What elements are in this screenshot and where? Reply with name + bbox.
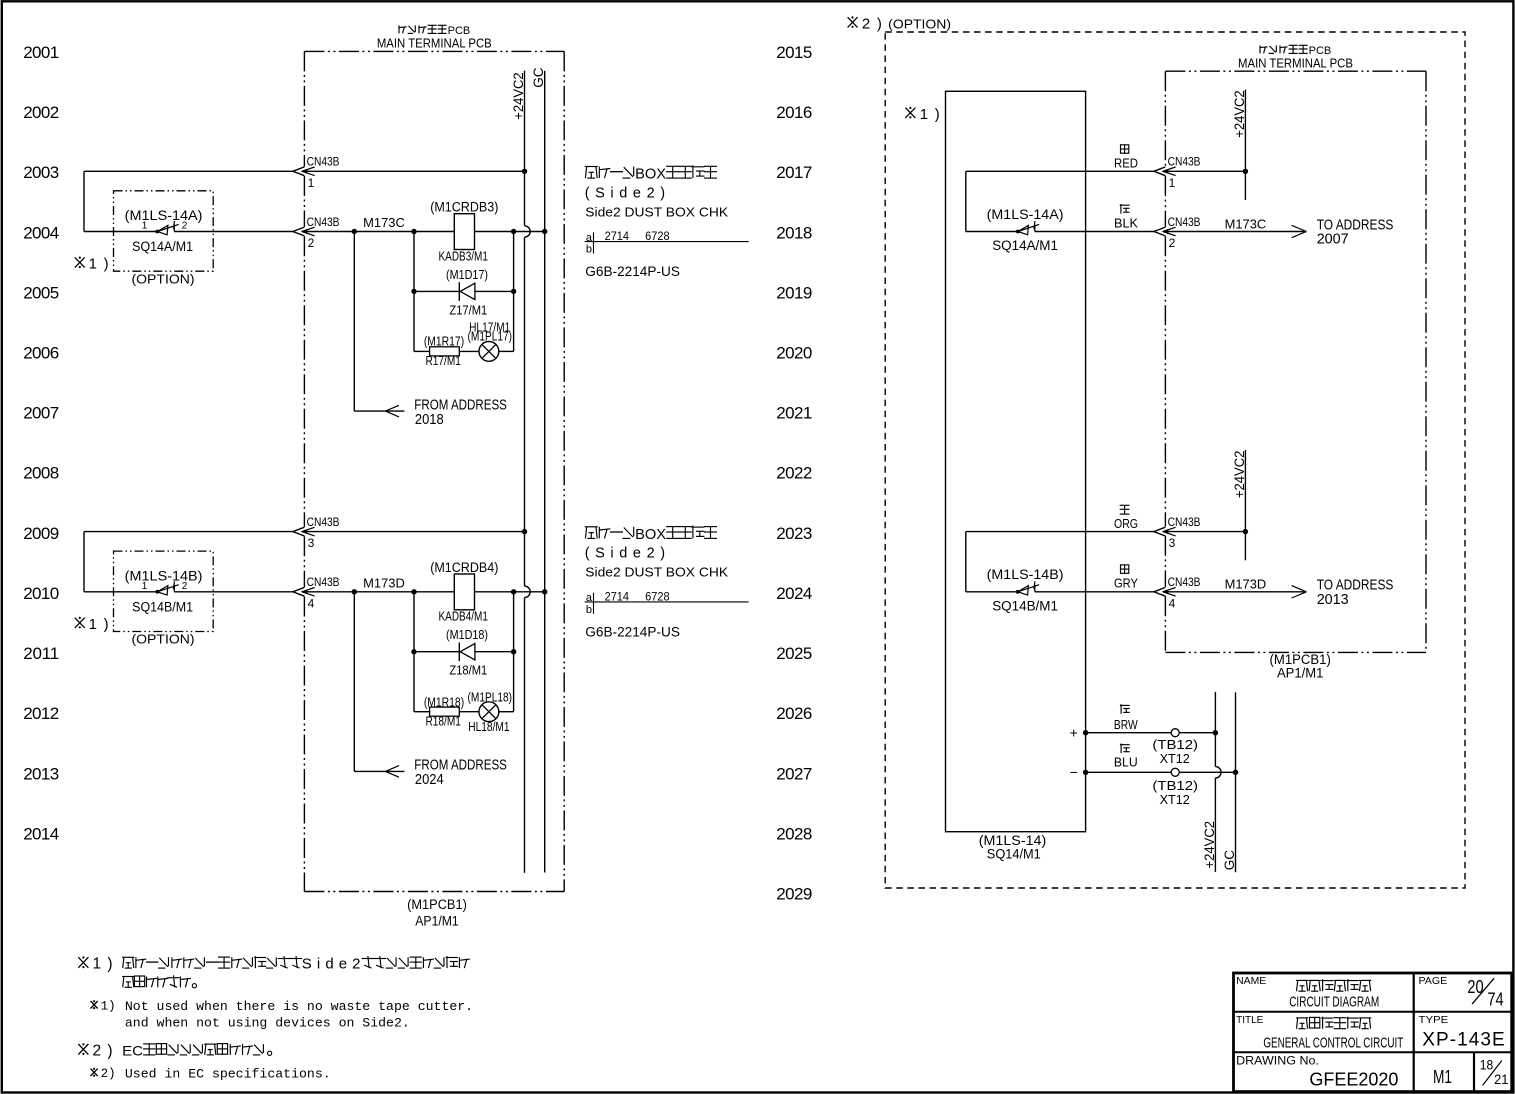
svg-text:(M1LS-14A): (M1LS-14A): [987, 207, 1064, 222]
connector CN43B pin 2: [1154, 227, 1176, 236]
svg-text:CN43B: CN43B: [1168, 575, 1201, 589]
option enclosure dash-dot box: [114, 191, 214, 271]
title 総合制御回路: [1296, 1017, 1308, 1019]
net +24VC2 stub: [1244, 450, 1246, 560]
svg-text:M173C: M173C: [363, 216, 405, 230]
svg-text:G6B-2214P-US: G6B-2214P-US: [585, 625, 680, 640]
note ※1) small: [91, 999, 116, 1013]
svg-text:2): 2): [101, 1067, 116, 1081]
svg-text:CIRCUIT DIAGRAM: CIRCUIT DIAGRAM: [1289, 993, 1379, 1010]
svg-text:DRAWING No.: DRAWING No.: [1236, 1055, 1319, 1067]
svg-text:2011: 2011: [23, 644, 59, 663]
svg-text:1: 1: [308, 176, 315, 190]
svg-text:M173D: M173D: [363, 577, 405, 591]
enclosure OPTION dashed box: [885, 32, 1465, 888]
svg-text:(M1R17): (M1R17): [424, 335, 464, 349]
switch unit enclosure box (M1LS-14): [946, 91, 1086, 831]
note JP line2 使用しません。: [122, 976, 134, 978]
svg-text:R17/M1: R17/M1: [426, 354, 461, 368]
svg-text:G6B-2214P-US: G6B-2214P-US: [585, 264, 680, 279]
svg-text:2024: 2024: [776, 584, 812, 603]
terminal XT12 (TB12) lower: [1171, 768, 1179, 776]
wire row to CN43B: [966, 170, 1154, 172]
junction on +24VC2: [1243, 529, 1248, 534]
note EC仕様のとき使用します。: [122, 1043, 272, 1059]
svg-text:SQ14B/M1: SQ14B/M1: [132, 599, 193, 614]
note JP line1: [122, 956, 470, 973]
svg-text:2): 2): [93, 1043, 113, 1060]
label 赤: [1121, 145, 1129, 153]
junction on GC: [542, 229, 547, 234]
resistor R18/M1 (M1R18): [430, 707, 460, 716]
svg-text:Side2: Side2: [302, 956, 361, 973]
note 残テープBOX有無確認: [585, 526, 717, 543]
svg-text:2003: 2003: [23, 163, 59, 182]
svg-text:PCB: PCB: [448, 25, 471, 37]
terminal XT12 (TB12) upper: [1171, 729, 1179, 737]
junction on +24VC2: [1213, 730, 1218, 735]
svg-text:1): 1): [89, 616, 109, 633]
limit switch SQ14A/M1 (M1LS-14A): [155, 221, 178, 235]
junction at box edge BLU: [1083, 770, 1088, 775]
svg-text:2019: 2019: [776, 283, 812, 302]
title block frame: [1234, 973, 1512, 1092]
wire loop to switch: [966, 591, 1018, 593]
net +24VC2 stub: [1244, 90, 1246, 200]
svg-text:KADB3/M1: KADB3/M1: [439, 249, 488, 263]
svg-text:(M1LS-14A): (M1LS-14A): [125, 208, 203, 223]
svg-text:2010: 2010: [23, 584, 59, 603]
note ※2） bottom: [78, 1043, 112, 1060]
resistor R17/M1 (M1R17): [430, 347, 460, 356]
svg-text:2012: 2012: [23, 704, 59, 723]
svg-text:MAIN TERMINAL PCB: MAIN TERMINAL PCB: [1238, 57, 1353, 71]
svg-text:(M1R18): (M1R18): [424, 696, 464, 710]
svg-text:2024: 2024: [415, 772, 444, 788]
svg-text:2006: 2006: [23, 344, 59, 363]
svg-text:NAME: NAME: [1236, 975, 1266, 987]
junction at box edge BRW: [1083, 730, 1088, 735]
svg-text:M173C: M173C: [1225, 217, 1267, 231]
svg-text:XP-143E: XP-143E: [1422, 1030, 1504, 1051]
svg-text:CN43B: CN43B: [307, 515, 340, 529]
wire loop to switch: [966, 231, 1018, 233]
svg-text:2029: 2029: [776, 885, 812, 904]
branch wire right vertical: [513, 592, 515, 712]
wire lamp row: [414, 350, 430, 352]
junction node parallel branch left: [411, 589, 416, 594]
svg-text:GRY: GRY: [1114, 577, 1139, 591]
svg-text:b: b: [586, 244, 592, 256]
wire diode row: [414, 651, 459, 653]
arrow to address: [1292, 586, 1307, 592]
wire CN43B pin4 to relay coil: [307, 591, 454, 593]
wire loop vertical: [83, 532, 85, 592]
svg-text:PCB: PCB: [1309, 45, 1332, 57]
svg-text:(TB12): (TB12): [1152, 778, 1198, 793]
diode Z17/M1 (M1D17): [459, 282, 475, 301]
svg-text:Side2 DUST BOX CHK: Side2 DUST BOX CHK: [585, 565, 728, 580]
contact table a/b 2714 6728: [585, 592, 749, 616]
svg-text:1): 1): [93, 956, 113, 973]
svg-text:Z18/M1: Z18/M1: [449, 663, 487, 678]
diode Z18/M1 (M1D18): [459, 643, 475, 662]
svg-text:BOX: BOX: [635, 166, 666, 183]
svg-text:SQ14A/M1: SQ14A/M1: [992, 238, 1058, 253]
wire relay coil to GC: [475, 591, 545, 593]
svg-text:2008: 2008: [23, 464, 59, 483]
connector CN43B pin 1: [293, 167, 315, 176]
connector CN43B pin 4: [1154, 587, 1176, 596]
svg-text:AP1/M1: AP1/M1: [1277, 666, 1324, 681]
junction node from-address branch: [352, 229, 357, 234]
address labels right column 2015-2029: [776, 43, 812, 904]
svg-text:BRW: BRW: [1114, 718, 1138, 732]
label 黒: [1120, 204, 1122, 214]
connector CN43B pin 3: [1154, 527, 1176, 536]
junction node parallel branch left: [411, 229, 416, 234]
wire BRW: [1086, 732, 1216, 734]
connector CN43B pin 3: [293, 527, 315, 536]
wire row 2009 to CN43B: [84, 531, 293, 533]
relay coil KADB3/M1 (M1CRDB3): [454, 214, 474, 250]
wire CN43B to +24VC2: [1168, 531, 1245, 533]
note ※2) small: [91, 1067, 116, 1081]
svg-text:(Side2): (Side2): [585, 546, 665, 562]
wire loop vertical: [83, 171, 85, 231]
svg-text:(M1D17): (M1D17): [446, 268, 488, 282]
PCB title メイン中継PCB right: [1260, 45, 1331, 57]
svg-text:2020: 2020: [776, 344, 812, 363]
address labels left column 2001-2014: [23, 43, 59, 844]
junction on GC: [542, 589, 547, 594]
svg-text:21: 21: [1494, 1071, 1509, 1087]
note ※1）: [75, 616, 109, 633]
label 橙: [1120, 504, 1130, 506]
wire loop vertical: [965, 171, 967, 231]
svg-text:2002: 2002: [23, 103, 59, 122]
svg-text:BLU: BLU: [1114, 755, 1138, 769]
svg-text:GC: GC: [531, 67, 546, 88]
junction on +24VC2: [522, 529, 527, 534]
svg-text:(M1CRDB4): (M1CRDB4): [430, 560, 498, 575]
svg-text:2005: 2005: [23, 283, 59, 302]
svg-text:2017: 2017: [776, 163, 812, 182]
connector CN43B pin 4: [293, 587, 315, 596]
svg-text:2: 2: [1169, 236, 1176, 250]
svg-text:(M1PL18): (M1PL18): [468, 691, 513, 705]
wire from-address branch: [354, 592, 404, 772]
svg-text:BOX: BOX: [635, 526, 666, 543]
svg-text:(M1PL17): (M1PL17): [468, 330, 513, 344]
svg-text:SQ14B/M1: SQ14B/M1: [992, 598, 1058, 613]
note ※1） bottom: [78, 956, 112, 973]
svg-text:2027: 2027: [776, 764, 812, 783]
svg-text:2028: 2028: [776, 825, 812, 844]
junction node parallel branch right: [511, 229, 516, 234]
svg-text:Side2 DUST BOX CHK: Side2 DUST BOX CHK: [585, 204, 728, 219]
wire M173D to address: [1168, 591, 1306, 593]
svg-text:EC: EC: [122, 1043, 143, 1059]
wire row 2003 to CN43B: [84, 170, 293, 172]
wire switch to CN43B: [174, 591, 293, 593]
wire CN43B pin1 to +24VC2: [307, 170, 525, 172]
svg-text:2026: 2026: [776, 704, 812, 723]
branch wire left vertical: [413, 592, 415, 712]
svg-text:TITLE: TITLE: [1236, 1014, 1263, 1026]
contact table a/b 2714 6728: [585, 231, 749, 255]
svg-text:+24VC2: +24VC2: [1202, 821, 1217, 869]
svg-text:Z17/M1: Z17/M1: [449, 302, 487, 317]
wire to switch: [84, 591, 157, 593]
svg-text:2016: 2016: [776, 103, 812, 122]
svg-text:1): 1): [920, 106, 940, 123]
label 青: [1120, 744, 1122, 754]
note ※1） right: [905, 106, 939, 123]
wire lamp row: [414, 711, 430, 713]
svg-text:+: +: [1070, 724, 1078, 740]
svg-text:AP1/M1: AP1/M1: [415, 914, 458, 929]
svg-text:2009: 2009: [23, 524, 59, 543]
svg-text:HL18/M1: HL18/M1: [468, 720, 509, 734]
arrow from address: [385, 405, 399, 411]
lamp HL17/M1 (M1PL17): [479, 342, 499, 362]
svg-text:M1: M1: [1433, 1067, 1452, 1087]
limit switch SQ14B/M1 right (M1LS-14B): [1016, 581, 1039, 595]
svg-text:18: 18: [1480, 1057, 1494, 1073]
svg-text:+24VC2: +24VC2: [1232, 451, 1247, 499]
branch wire left vertical: [413, 232, 415, 352]
svg-text:(OPTION): (OPTION): [888, 16, 951, 31]
svg-text:2013: 2013: [23, 764, 59, 783]
svg-text:XT12: XT12: [1160, 751, 1190, 766]
svg-text:SQ14/M1: SQ14/M1: [987, 846, 1041, 861]
wire from-address branch: [354, 232, 404, 412]
wire CN43B pin3 to +24VC2: [307, 531, 525, 533]
label 茶: [1120, 704, 1122, 714]
note ※2）: [848, 15, 882, 32]
wire diode row: [414, 290, 459, 292]
svg-text:b: b: [586, 604, 592, 616]
limit switch SQ14A/M1 right (M1LS-14A): [1016, 221, 1039, 235]
junction on GC: [1233, 770, 1238, 775]
enclosure MAIN TERMINAL PCB (M1PCB1) dash-dot box: [304, 51, 564, 891]
sheet number 18/21: [1480, 1057, 1509, 1087]
wire CN43B pin2 to relay coil: [307, 231, 454, 233]
svg-text:2004: 2004: [23, 223, 59, 242]
svg-text:BLK: BLK: [1114, 216, 1139, 230]
svg-text:(M1LS-14B): (M1LS-14B): [125, 568, 203, 583]
wire BLU: [1086, 771, 1236, 773]
svg-text:2007: 2007: [23, 404, 59, 423]
svg-text:GENERAL CONTROL CIRCUIT: GENERAL CONTROL CIRCUIT: [1263, 1035, 1403, 1052]
junction on +24VC2: [1243, 169, 1248, 174]
note ※1）: [75, 256, 109, 273]
note 残テープBOX有無確認: [585, 165, 717, 182]
page number 20/74: [1467, 977, 1503, 1010]
svg-text:CN43B: CN43B: [307, 155, 340, 169]
svg-text:GC: GC: [1222, 850, 1237, 871]
svg-text:CN43B: CN43B: [1168, 215, 1201, 229]
svg-text:(OPTION): (OPTION): [132, 271, 195, 286]
svg-text:CN43B: CN43B: [307, 575, 340, 589]
PCB title メイン中継PCB: [399, 25, 470, 37]
svg-text:Used in EC specifications.: Used in EC specifications.: [125, 1066, 331, 1081]
svg-text:2013: 2013: [1317, 592, 1349, 608]
svg-text:CN43B: CN43B: [307, 215, 340, 229]
svg-text:(M1LS-14B): (M1LS-14B): [987, 567, 1064, 582]
wire switch to CN43B: [1035, 591, 1154, 593]
svg-text:and when not using devices on: and when not using devices on Side2.: [125, 1015, 410, 1030]
wire M173C to address: [1168, 231, 1306, 233]
svg-text:(M1D18): (M1D18): [446, 628, 488, 642]
svg-text:74: 74: [1487, 989, 1503, 1009]
arrow from address: [385, 766, 399, 772]
net +24VC2 rail: [525, 71, 531, 873]
svg-text:2023: 2023: [776, 524, 812, 543]
svg-text:MAIN TERMINAL PCB: MAIN TERMINAL PCB: [377, 37, 492, 51]
svg-text:2014: 2014: [23, 825, 59, 844]
svg-text:1): 1): [101, 999, 116, 1013]
wire to switch: [84, 231, 157, 233]
arrow to address: [1292, 225, 1307, 231]
wire row to CN43B: [966, 531, 1154, 533]
svg-text:GFEE2020: GFEE2020: [1309, 1069, 1398, 1090]
svg-text:3: 3: [308, 536, 315, 550]
svg-text:1: 1: [1169, 176, 1176, 190]
svg-text:2: 2: [308, 236, 315, 250]
svg-text:R18/M1: R18/M1: [426, 714, 461, 728]
wire CN43B to +24VC2: [1168, 170, 1245, 172]
net GC rail: [544, 71, 546, 873]
svg-text:4: 4: [1169, 596, 1176, 610]
svg-text:KADB4/M1: KADB4/M1: [439, 610, 488, 624]
lamp HL18/M1 (M1PL18): [479, 702, 499, 722]
svg-text:RED: RED: [1114, 157, 1138, 171]
svg-text:2025: 2025: [776, 644, 812, 663]
svg-text:(M1PCB1): (M1PCB1): [407, 897, 467, 912]
wire loop vertical: [965, 532, 967, 592]
net +24VC2 lower rail: [1215, 692, 1221, 872]
wire switch to CN43B: [174, 231, 293, 233]
enclosure MAIN TERMINAL PCB right dash-dot box: [1165, 71, 1426, 652]
svg-text:(Side2): (Side2): [585, 185, 665, 201]
svg-text:3: 3: [1169, 536, 1176, 550]
svg-text:4: 4: [308, 596, 315, 610]
svg-text:(OPTION): (OPTION): [132, 632, 195, 647]
title 電気回路線図: [1296, 979, 1308, 981]
svg-text:Not used when there is no wast: Not used when there is no waste tape cut…: [125, 999, 473, 1014]
limit switch SQ14B/M1 (M1LS-14B): [155, 581, 178, 595]
svg-text:(M1CRDB3): (M1CRDB3): [430, 200, 498, 215]
branch wire right vertical: [513, 232, 515, 352]
svg-text:2021: 2021: [776, 404, 812, 423]
svg-text:2018: 2018: [415, 412, 444, 428]
net GC lower rail: [1235, 692, 1237, 872]
svg-text:−: −: [1070, 764, 1078, 780]
svg-text:ORG: ORG: [1114, 517, 1138, 531]
svg-text:+24VC2: +24VC2: [1232, 90, 1247, 138]
wire switch to CN43B: [1035, 231, 1154, 233]
svg-text:2018: 2018: [776, 223, 812, 242]
wire relay coil to GC: [475, 231, 545, 233]
svg-text:2015: 2015: [776, 43, 812, 62]
svg-text:TYPE: TYPE: [1419, 1014, 1449, 1026]
option enclosure dash-dot box: [114, 551, 214, 631]
svg-text:2001: 2001: [23, 43, 59, 62]
connector CN43B pin 1: [1154, 167, 1176, 176]
svg-text:CN43B: CN43B: [1168, 515, 1201, 529]
connector CN43B pin 2: [293, 227, 315, 236]
relay coil KADB4/M1 (M1CRDB4): [454, 574, 474, 610]
svg-text:M173D: M173D: [1225, 578, 1267, 592]
junction on +24VC2: [522, 169, 527, 174]
svg-text:2022: 2022: [776, 464, 812, 483]
svg-text:PAGE: PAGE: [1419, 975, 1448, 987]
svg-text:CN43B: CN43B: [1168, 155, 1201, 169]
svg-text:SQ14A/M1: SQ14A/M1: [132, 239, 193, 254]
svg-text:2): 2): [862, 15, 882, 32]
svg-text:+24VC2: +24VC2: [511, 72, 526, 120]
junction node parallel branch right: [511, 589, 516, 594]
svg-text:1): 1): [89, 256, 109, 273]
label 灰: [1121, 565, 1129, 573]
junction node from-address branch: [352, 589, 357, 594]
svg-text:2007: 2007: [1317, 232, 1349, 248]
svg-text:XT12: XT12: [1160, 792, 1190, 807]
